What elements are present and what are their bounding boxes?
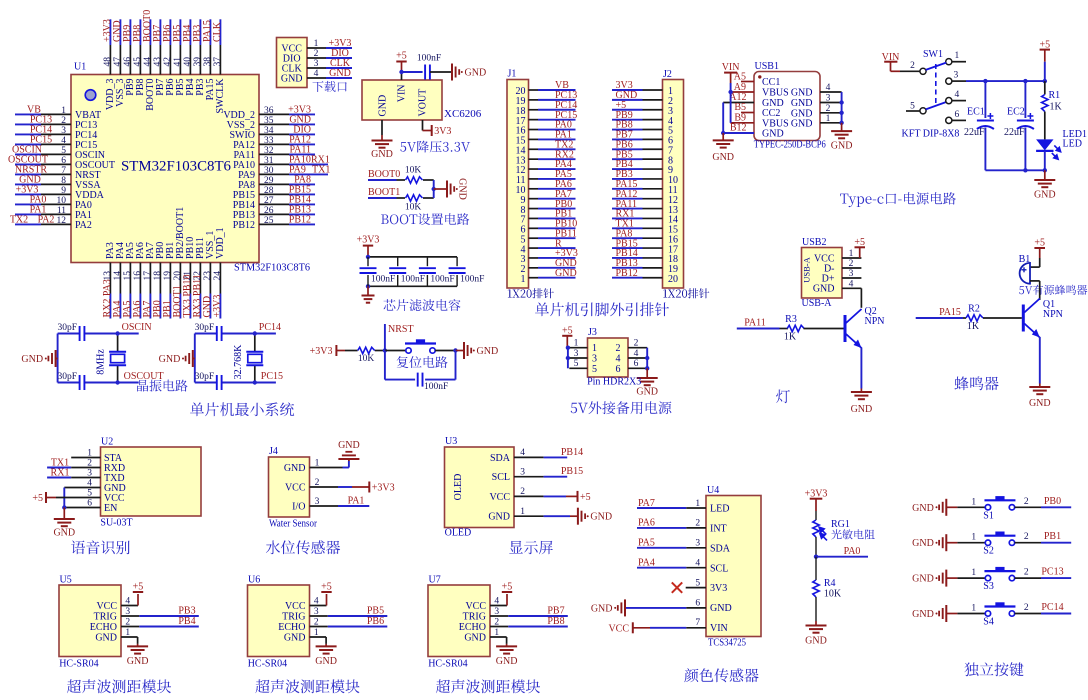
U2 pin 3 TXD net RX1 <box>47 468 124 485</box>
module U5 body <box>59 585 121 657</box>
wire R1 to LED <box>1044 112 1046 140</box>
wire to ground (rail) <box>1044 170 1046 179</box>
wire VIN to sw pin2 <box>890 62 892 72</box>
svg-text:S4: S4 <box>983 617 994 628</box>
U7 pin 3 wire + net PB7 <box>490 615 508 617</box>
svg-text:USB-A: USB-A <box>802 256 812 282</box>
switch SW1 blade upper <box>926 63 947 70</box>
header J1 body <box>507 80 529 289</box>
junction (VIN/A9) <box>728 90 732 94</box>
svg-text:32.768K: 32.768K <box>233 344 244 380</box>
USB2 pin 3 wire <box>842 277 861 279</box>
svg-text:PA6: PA6 <box>638 518 655 529</box>
J2 pin 10 wire + net PB3 <box>612 169 678 186</box>
svg-text:GND: GND <box>912 609 934 620</box>
wire GND bus (J3 right) <box>646 348 648 369</box>
U1 pin 20 PB2/BOOT1 (bottom) wire + net BOOT1 <box>172 207 186 319</box>
J2 pin 18 wire + net PB14 <box>612 248 678 265</box>
svg-text:EC1: EC1 <box>967 107 985 118</box>
svg-text:16: 16 <box>133 271 143 281</box>
svg-text:12: 12 <box>57 216 67 226</box>
ground (reset) <box>463 342 465 359</box>
junction (U2 gnd) <box>62 505 66 509</box>
svg-text:+3V3: +3V3 <box>212 295 223 318</box>
J3 pin 5 wire <box>569 367 587 369</box>
U3 pin 1 wire + ground <box>514 515 544 517</box>
junction top-left <box>366 255 370 259</box>
svg-text:1K: 1K <box>784 332 797 343</box>
wire +5 down <box>1044 50 1046 62</box>
J1 pin 16 wire + net PA0 <box>516 120 576 137</box>
svg-text:GND: GND <box>315 656 337 667</box>
svg-text:3: 3 <box>849 269 854 279</box>
wire crystal loop bottom <box>195 382 217 384</box>
J4 pin 1 wire to ground <box>310 467 343 469</box>
wire junction vertical <box>433 180 435 198</box>
wire BOOT1 res to junction <box>423 197 434 199</box>
wire Q2 emitter down <box>860 348 862 389</box>
svg-text:NRST: NRST <box>388 324 414 335</box>
svg-text:2: 2 <box>826 104 831 114</box>
capacitor 100nF (reset) <box>417 373 419 387</box>
section label 超声波测距模块 (U6) <box>255 679 359 693</box>
svg-text:GND: GND <box>791 88 813 99</box>
svg-text:INT: INT <box>710 524 727 535</box>
svg-text:2: 2 <box>849 259 854 269</box>
svg-text:VDD_1: VDD_1 <box>215 227 226 259</box>
J3 pin 4 wire <box>628 357 647 359</box>
svg-text:SCL: SCL <box>492 472 510 483</box>
svg-text:+5: +5 <box>321 582 332 593</box>
junction (VIN/cap) <box>399 70 403 74</box>
capacitor 30pF (bottom, 8MHz circuit) <box>79 375 81 390</box>
svg-text:SW1: SW1 <box>923 49 943 60</box>
J2 pin 11 wire + net PA15 <box>612 179 678 196</box>
svg-text:LED: LED <box>1063 139 1082 150</box>
U5 pin 2 wire + net PB4 <box>121 626 139 628</box>
U1 pin 44 BOOT0 (top) wire + net BOOT0 <box>142 10 156 111</box>
U1 pin 39 PB3 (top) wire + net PB3 <box>192 19 206 95</box>
svg-text:RG1: RG1 <box>831 519 850 530</box>
svg-text:31: 31 <box>264 156 274 166</box>
node OSCOUT + net label <box>115 380 119 384</box>
svg-text:1: 1 <box>521 274 526 285</box>
U1 pin 7 NRST (left) wire + net NRSTR <box>15 164 101 181</box>
wire +3V3 to resistor <box>336 350 345 352</box>
J1 pin 6 wire + net PB10 <box>521 219 578 236</box>
U4 pin 4 SCL net PA4 <box>637 558 728 575</box>
U4 pin 2 INT net PA6 <box>637 518 727 535</box>
svg-text:GND: GND <box>488 512 510 523</box>
capacitor 30pF (top, 32.768K circuit) <box>216 326 218 341</box>
junction bottom/R1 <box>1043 168 1047 172</box>
U2 pin 2 RXD net TX1 <box>47 458 125 475</box>
U1 pin 13 PA3 (bottom) wire + net RX2 PA3 <box>102 242 116 318</box>
U2 pin 1 STA <box>71 449 123 465</box>
svg-text:47: 47 <box>113 57 123 67</box>
U1 pin 47 VSS_3 (top) wire + net GND <box>112 19 126 107</box>
svg-text:14: 14 <box>113 271 123 281</box>
U1 pin 35 VSS_2 (right) wire + net GND <box>227 114 315 131</box>
U3 pin 2 wire + +5 flag <box>514 495 544 497</box>
svg-text:GND: GND <box>127 656 149 667</box>
svg-text:CLK: CLK <box>212 21 223 42</box>
wire to ground (U2) <box>63 508 65 519</box>
svg-text:36: 36 <box>264 106 274 116</box>
J2 pin 13 wire + net PA11 <box>612 199 678 216</box>
wire R4 to ground <box>815 597 817 621</box>
transistor Q2 NPN <box>844 315 847 342</box>
wire bottom rail <box>368 285 457 287</box>
crystal 8MHz <box>117 334 119 352</box>
USB1 pin-1 dot <box>758 75 761 78</box>
push button S3 + net PC13 + ground <box>912 567 1071 593</box>
svg-text:PA1: PA1 <box>348 496 365 507</box>
section label 5V外接备用电源 <box>571 401 672 414</box>
section label 超声波测距模块 (U7) <box>436 679 540 693</box>
svg-text:GND: GND <box>464 633 486 644</box>
U1 pin 26 PB13 (right) wire + net PB13 <box>233 204 315 221</box>
capacitor 100nF (filter #1) <box>360 257 396 286</box>
J1 pin 1 wire + net GND <box>521 268 577 285</box>
svg-text:HC-SR04: HC-SR04 <box>428 659 467 670</box>
wire junction to ground <box>434 188 447 190</box>
wire VIN node <box>401 72 403 80</box>
svg-text:ECHO: ECHO <box>90 622 117 633</box>
svg-text:2: 2 <box>1024 532 1029 542</box>
svg-text:18: 18 <box>153 271 163 281</box>
svg-text:GND: GND <box>477 346 499 357</box>
wire +5 to buzzer <box>1039 248 1041 258</box>
svg-text:GND: GND <box>378 95 389 117</box>
U3 pin 3 wire + net PB15 <box>514 476 544 478</box>
wire to ground (Q2) <box>860 389 862 392</box>
svg-text:Water Sensor: Water Sensor <box>269 519 318 530</box>
svg-text:VCC: VCC <box>285 601 306 612</box>
svg-text:GND: GND <box>21 354 43 365</box>
J2 pin 12 wire + net PA12 <box>612 189 678 206</box>
switch SW1 pin 5 contact + wire <box>920 108 926 114</box>
svg-text:PC13: PC13 <box>1041 567 1063 578</box>
J3 pin 1 wire <box>569 347 587 349</box>
svg-text:6: 6 <box>955 110 960 120</box>
wire crystal loop left vertical <box>194 334 196 383</box>
J2 pin 19 wire + net PB13 <box>612 258 678 275</box>
wire NRST up + net label <box>384 324 386 351</box>
svg-text:S2: S2 <box>983 546 994 557</box>
svg-text:PA15: PA15 <box>939 307 961 318</box>
wire to ground (reset) <box>456 350 465 352</box>
svg-text:EN: EN <box>104 503 117 514</box>
svg-text:ECHO: ECHO <box>278 622 305 633</box>
svg-text:GND: GND <box>95 633 117 644</box>
svg-text:J1: J1 <box>508 69 517 80</box>
U2 pin 5 VCC <box>87 489 125 505</box>
J4 pin 3 wire + net PA1 <box>310 505 339 507</box>
wire crystal loop top <box>195 333 217 335</box>
svg-text:PB12: PB12 <box>289 214 311 225</box>
svg-text:+3V3: +3V3 <box>372 483 395 494</box>
wire node to button <box>385 350 406 352</box>
ground (U6) <box>316 645 337 647</box>
svg-text:PB0: PB0 <box>1044 496 1061 507</box>
svg-text:PA0: PA0 <box>844 546 861 557</box>
svg-text:44: 44 <box>143 57 153 67</box>
svg-text:GND: GND <box>159 354 181 365</box>
svg-text:GND: GND <box>555 268 577 279</box>
U2 pin 4 GND wire <box>64 487 100 489</box>
U1 pin 15 PA5 (bottom) wire + net PA5 <box>122 242 136 318</box>
J2 pin 4 wire + net PB9 <box>612 110 673 127</box>
wire LED to rail bottom <box>1044 151 1046 170</box>
svg-text:3: 3 <box>574 349 579 359</box>
svg-text:GND: GND <box>813 284 835 295</box>
resistor 10K (BOOT1) <box>406 195 423 201</box>
J1 pin 8 wire + net PB0 <box>521 199 576 216</box>
svg-text:1: 1 <box>61 106 66 116</box>
svg-text:3V3: 3V3 <box>710 583 727 594</box>
U6 pin 3 wire + net PB5 <box>310 615 328 617</box>
capacitor 100nF (filter #3) <box>419 257 455 286</box>
download port pin 3 CLK wire + net CLK <box>282 58 352 74</box>
svg-text:4: 4 <box>634 349 639 359</box>
svg-text:STM32F103C8T6: STM32F103C8T6 <box>121 159 231 175</box>
switch SW1 blade lower <box>926 102 947 109</box>
svg-text:19: 19 <box>163 271 173 281</box>
svg-text:NPN: NPN <box>865 316 885 327</box>
svg-text:R1: R1 <box>1049 90 1061 101</box>
ground (U2) <box>54 518 75 520</box>
ground (BOOT, rotated text) <box>446 181 448 198</box>
U5 pin 4 wire + +5 flag <box>121 605 138 607</box>
svg-text:100nF: 100nF <box>371 275 395 285</box>
wire cap loop right <box>455 351 457 380</box>
svg-text:30pF: 30pF <box>57 372 77 382</box>
module U6 body <box>248 585 310 657</box>
svg-text:NPN: NPN <box>1043 309 1063 320</box>
svg-text:+5: +5 <box>32 493 43 504</box>
svg-text:GND: GND <box>912 538 934 549</box>
ground (crystal loop) <box>56 358 58 360</box>
U4 pin 7 VIN <box>695 618 727 634</box>
svg-text:4: 4 <box>955 90 960 100</box>
section label 水位传感器 <box>266 540 340 554</box>
svg-text:29: 29 <box>264 176 274 186</box>
J2 pin 9 wire + net PB4 <box>612 159 673 176</box>
section label 单片机引脚外引排针 <box>535 302 669 316</box>
J1 pin 14 wire + net TX2 <box>516 139 576 156</box>
section label 显示屏 <box>509 541 553 555</box>
resistor 10K (BOOT0) <box>406 177 423 183</box>
svg-text:8MHz: 8MHz <box>96 349 107 375</box>
J1 pin 17 wire + net PC15 <box>516 110 578 127</box>
node PC15 + net label <box>253 380 257 384</box>
switch SW1 gang dashed link <box>935 64 937 105</box>
svg-text:10K: 10K <box>405 166 422 176</box>
U7 pin 1 wire + ground <box>490 636 507 638</box>
U1 pin 24 VDD_1 (bottom) wire + net +3V3 <box>212 227 226 318</box>
svg-text:GND: GND <box>281 73 303 84</box>
svg-text:GND: GND <box>851 404 873 415</box>
junction (NRST node) <box>383 348 387 352</box>
U1 pin 32 PA11 (right) wire + net PA11 <box>234 144 316 161</box>
push button S1 + net PB0 + ground <box>912 496 1071 522</box>
svg-text:+3V3: +3V3 <box>310 346 333 357</box>
ground (divider) <box>806 625 827 627</box>
svg-text:46: 46 <box>123 57 133 67</box>
svg-text:+5: +5 <box>1034 238 1045 249</box>
junction GND bus 3 <box>839 100 843 104</box>
svg-text:45: 45 <box>133 57 143 67</box>
svg-text:2: 2 <box>1024 568 1029 578</box>
svg-text:5: 5 <box>574 359 579 369</box>
svg-text:CC2: CC2 <box>762 108 780 119</box>
svg-text:BOOT1: BOOT1 <box>368 187 400 198</box>
svg-text:GND: GND <box>805 636 827 647</box>
J4 pin 2 wire <box>310 486 339 488</box>
svg-text:42: 42 <box>163 57 173 67</box>
U1 pin 10 PA0 (left) wire + net PA0 <box>15 194 92 211</box>
svg-text:S3: S3 <box>983 581 994 592</box>
svg-text:1: 1 <box>955 51 960 61</box>
ground (buzzer) <box>1029 386 1050 388</box>
U1 pin 41 PB5 (top) wire + net PB5 <box>172 19 186 95</box>
svg-text:GND: GND <box>1034 190 1056 201</box>
svg-text:GND: GND <box>329 68 351 79</box>
label 1X20排针 (J2) <box>663 288 709 298</box>
svg-text:100nF: 100nF <box>417 54 441 64</box>
resistor R3 1K <box>787 325 804 331</box>
svg-text:22uF: 22uF <box>1004 127 1025 138</box>
download port pin 1 VCC wire + net +3V3 <box>281 38 352 54</box>
wire +5 rail top <box>985 80 1044 82</box>
svg-text:1: 1 <box>971 497 976 507</box>
U1 pin-1 marker circle <box>85 90 96 101</box>
svg-text:VOUT: VOUT <box>418 89 429 117</box>
svg-text:20: 20 <box>668 274 678 285</box>
U1 pin 27 PB14 (right) wire + net PB14 <box>233 194 315 211</box>
svg-text:PA5: PA5 <box>638 538 655 549</box>
wire U2 gnd vertical <box>63 488 65 508</box>
svg-text:15: 15 <box>123 271 133 281</box>
U6 pin 4 wire + +5 flag <box>310 605 327 607</box>
U1 pin 8 VSSA (left) wire + net GND <box>15 174 101 191</box>
svg-text:4: 4 <box>849 279 854 289</box>
svg-text:1: 1 <box>849 249 854 259</box>
switch SW1 pin 2 contact <box>920 68 926 74</box>
J2 pin 7 wire + net PB6 <box>612 139 673 156</box>
wire RG1 to node <box>815 537 817 557</box>
svg-text:GND: GND <box>912 574 934 585</box>
U2 pin 6 EN <box>87 499 117 515</box>
section label Type-c口-电源电路 <box>840 192 956 207</box>
svg-text:1: 1 <box>314 39 319 49</box>
svg-text:R2: R2 <box>968 304 980 315</box>
U1 pin 4 PC15 (left) wire + net PC15 <box>15 134 97 151</box>
wire to ground (J3) <box>646 368 648 377</box>
USB1 right pin 2 wire <box>820 112 842 114</box>
wire cap loop left <box>384 351 386 380</box>
U6 pin 2 wire + net PB6 <box>310 626 328 628</box>
U1 pin 9 VDDA (left) wire + net +3V3 <box>15 184 105 201</box>
switch SW1 pin 4 contact + wire <box>946 98 952 104</box>
svg-text:TRIG: TRIG <box>463 612 486 623</box>
svg-text:28: 28 <box>264 186 274 196</box>
svg-text:U5: U5 <box>60 575 72 586</box>
ground (J4, pointing up) <box>348 459 350 461</box>
module U7 body <box>428 585 490 657</box>
svg-text:1: 1 <box>971 604 976 614</box>
section label BOOT设置电路 <box>381 213 469 225</box>
svg-text:30: 30 <box>264 166 274 176</box>
power flag +3V3 (filter) <box>363 245 373 247</box>
wire to ground (filter) <box>367 286 369 295</box>
U1 pin 19 PB1 (bottom) wire + net PB1 <box>162 242 176 319</box>
svg-text:26: 26 <box>264 206 274 216</box>
U1 pin 5 OSCIN (left) wire + net OSCIN <box>12 144 105 161</box>
svg-text:J4: J4 <box>269 446 278 457</box>
U1 pin 11 PA1 (left) wire + net PA1 <box>15 204 92 221</box>
section label 超声波测距模块 (U5) <box>67 679 171 693</box>
section label 复位电路 <box>397 356 448 368</box>
svg-text:J2: J2 <box>663 69 672 80</box>
svg-text:+5: +5 <box>580 492 591 503</box>
svg-text:4: 4 <box>314 69 319 79</box>
wire +5 bus (J3 left) <box>566 336 568 348</box>
U1 pin 14 PA4 (bottom) wire + net PA4 <box>112 242 126 318</box>
J2 pin 6 wire + net PB7 <box>612 130 673 147</box>
U1 pin 42 PB6 (top) wire + net PB6 <box>162 19 176 95</box>
switch SW1 pin 6 contact + wire <box>946 117 952 123</box>
J1 pin 9 wire + net PA7 <box>521 189 576 206</box>
wire USB2 GND to Q2 collector <box>860 288 862 308</box>
push button S2 + net PB1 + ground <box>912 531 1071 557</box>
svg-text:PB15: PB15 <box>561 466 583 477</box>
svg-text:GND: GND <box>762 129 784 140</box>
J1 pin 18 wire + net PC14 <box>516 100 578 117</box>
U2 pin 6 EN wire <box>64 507 100 509</box>
svg-text:+3V3: +3V3 <box>357 234 380 245</box>
U1 pin 1 VBAT (left) wire + net VB <box>15 104 101 121</box>
svg-text:BOOT0: BOOT0 <box>368 169 400 180</box>
U4 pin 5 no-connect X + stub <box>672 582 682 592</box>
U4 pin 6 wire + ground <box>625 607 686 609</box>
U1 pin 43 PB7 (top) wire + net PB7 <box>152 19 166 95</box>
svg-text:3: 3 <box>61 126 66 136</box>
svg-text:+5: +5 <box>502 582 513 593</box>
svg-text:PA11: PA11 <box>744 318 766 329</box>
module U4 body <box>706 496 761 637</box>
svg-text:4: 4 <box>61 136 66 146</box>
U2 pin 4 GND <box>87 479 125 495</box>
svg-text:STM32F103C8T6: STM32F103C8T6 <box>234 263 310 274</box>
svg-text:7: 7 <box>61 166 66 176</box>
svg-text:11: 11 <box>57 206 66 216</box>
svg-text:ECHO: ECHO <box>459 622 486 633</box>
svg-text:100nF: 100nF <box>401 275 425 285</box>
svg-text:10: 10 <box>57 196 67 206</box>
U1 pin 2 PC13 (left) wire + net PC13 <box>15 114 97 131</box>
connector body (download port) <box>277 38 308 88</box>
svg-text:100nF: 100nF <box>430 275 454 285</box>
U7 pin 4 wire + +5 flag <box>490 605 507 607</box>
J2 pin 16 wire + net PA8 <box>612 228 678 245</box>
J2 pin 1 wire + net 3V3 <box>612 80 673 97</box>
svg-text:PA7: PA7 <box>638 498 655 509</box>
capacitor 100nF (input) <box>424 65 426 80</box>
junction J3 left <box>566 346 570 350</box>
J3 pin 3 wire <box>569 357 587 359</box>
